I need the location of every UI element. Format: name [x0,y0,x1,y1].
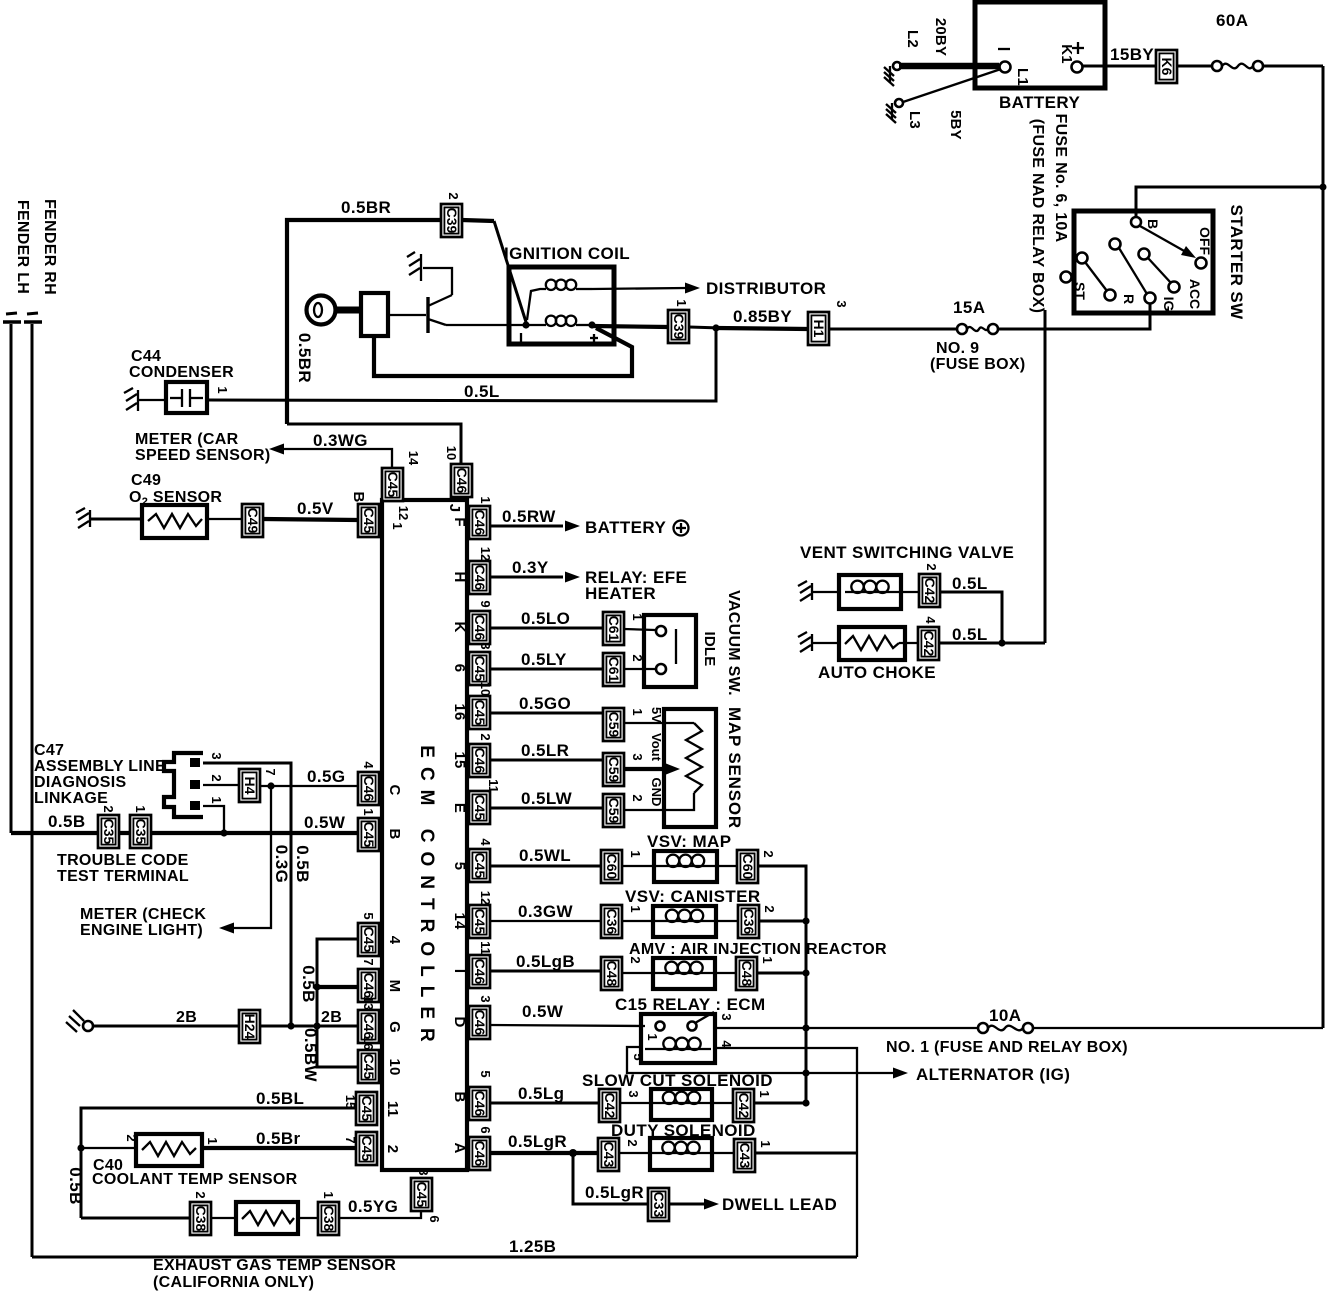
svg-text:3: 3 [478,995,493,1002]
label FENDER LH [14,200,31,294]
svg-text:MAP SENSOR: MAP SENSOR [725,707,744,829]
svg-text:2: 2 [193,1191,208,1198]
resistor C40 coolant temp sensor [81,1134,298,1188]
svg-text:1: 1 [760,956,775,963]
svg-text:1: 1 [478,496,493,503]
wire 10A to right bus [1033,1027,1323,1029]
connector C46 K right [451,600,493,644]
connector C45 3 bottom [411,1168,442,1222]
battery box [975,2,1105,112]
wire 0.5LgR dwell branch [573,1153,648,1204]
svg-text:AUTO CHOKE: AUTO CHOKE [818,663,936,682]
svg-text:DISTRIBUTOR: DISTRIBUTOR [706,279,826,298]
svg-text:1: 1 [757,1090,772,1097]
svg-text:BATTERY: BATTERY [999,93,1080,112]
svg-text:14: 14 [451,912,468,930]
svg-text:(FUSE NAD RELAY BOX): (FUSE NAD RELAY BOX) [1029,119,1046,313]
wire 0.5GO [490,694,603,713]
svg-text:1: 1 [209,796,224,803]
svg-text:VACUUM SW.: VACUUM SW. [725,590,742,696]
svg-text:LINKAGE: LINKAGE [34,790,108,807]
connector C39 pin 1 [668,299,689,343]
starter contact R [1077,253,1138,305]
fuse 10A [978,1006,1033,1033]
capacitor C44 condenser [129,348,234,413]
label FUSE No.6 10A [1029,114,1069,314]
svg-text:1: 1 [205,1137,220,1144]
svg-text:6: 6 [451,664,468,673]
ground vent valve [798,581,839,601]
svg-text:1: 1 [630,708,645,715]
svg-text:TROUBLE CODE: TROUBLE CODE [57,852,189,869]
svg-text:7: 7 [343,1136,358,1143]
svg-text:ENGINE LIGHT): ENGINE LIGHT) [80,922,203,939]
svg-text:G: G [386,1021,403,1033]
svg-text:NO. 1 (FUSE AND RELAY BOX): NO. 1 (FUSE AND RELAY BOX) [886,1039,1128,1056]
svg-text:2: 2 [209,774,224,781]
svg-text:16: 16 [451,703,468,720]
svg-text:1: 1 [361,808,376,815]
svg-text:Vout: Vout [649,733,664,762]
svg-text:7: 7 [263,768,278,775]
svg-text:J: J [446,504,463,513]
svg-text:12: 12 [478,547,493,561]
transistor ignitor [388,295,452,333]
connector C46 M left [358,958,403,1002]
svg-text:2: 2 [446,192,461,199]
wire canister to bus junction [759,917,810,924]
wire IG to fuse line [998,304,1150,329]
connector C45 2 left [343,1132,401,1165]
wire 5BY ground L3 to L1 [903,69,1001,140]
connector C45 16 right [451,682,493,729]
svg-text:15: 15 [451,751,468,768]
label meter car speed sensor [135,431,271,464]
svg-text:DIAGNOSIS: DIAGNOSIS [34,774,127,791]
svg-text:C45: C45 [359,1096,375,1122]
connector C61 pin 2 [603,653,645,686]
solenoid duty coil [619,1138,734,1170]
ground L3 [886,99,923,129]
connector C46 C left [358,761,403,805]
svg-text:L1: L1 [1014,68,1031,86]
wire relay coil 5 to alternator [627,1047,1070,1084]
svg-text:B: B [350,491,367,502]
wire fender RH down [31,324,34,1257]
connector C46 I right [451,941,493,988]
svg-text:3: 3 [626,1090,641,1097]
resistor auto choke [818,627,936,682]
label duty solenoid [611,1121,756,1140]
wire 0.5LgB [490,952,601,971]
wire C47 pin2 to H4 [203,784,239,786]
svg-text:60A: 60A [1216,11,1248,30]
svg-text:GND: GND [649,778,664,807]
battery terminal K1 (+) [1058,42,1084,73]
svg-text:C45: C45 [472,909,488,935]
svg-text:C45: C45 [361,822,377,848]
svg-text:0.3G: 0.3G [272,845,291,883]
connector C60 pin 2 [737,850,776,883]
connector C35 pin 1 [130,805,151,848]
svg-text:C42: C42 [921,631,937,657]
connector C42 pin 4 [918,616,939,660]
svg-text:1: 1 [390,522,405,529]
svg-text:H: H [451,571,468,582]
svg-text:METER (CHECK: METER (CHECK [80,906,206,923]
wire 0.5YG to ECM 3 [339,1197,421,1218]
svg-text:C15 RELAY : ECM: C15 RELAY : ECM [615,995,766,1014]
label meter check engine light [80,906,206,939]
svg-text:1: 1 [674,299,689,306]
svg-text:C45: C45 [472,656,488,682]
junction right bus to starter feed [1320,184,1327,191]
wire 0.3G to check engine meter [219,786,291,934]
wire 0.5B trouble code line [11,812,358,833]
svg-text:0.5LO: 0.5LO [521,609,570,628]
svg-text:C46: C46 [361,776,377,802]
svg-text:0.5L: 0.5L [952,625,988,644]
connector C60 pin 1 [601,850,643,883]
svg-text:C39: C39 [444,208,460,234]
svg-text:H4: H4 [242,777,258,795]
svg-text:0.5LY: 0.5LY [521,650,567,669]
svg-text:C35: C35 [133,819,149,845]
svg-text:COOLANT TEMP SENSOR: COOLANT TEMP SENSOR [92,1171,298,1188]
svg-text:2B: 2B [321,1009,342,1026]
connector H24 [239,1010,260,1043]
connector C46 H right [451,547,493,594]
vacuum switch idle box [624,590,742,696]
svg-text:FUSE No. 6, 10A: FUSE No. 6, 10A [1052,114,1069,243]
svg-text:C47: C47 [34,742,64,759]
wire C47 pin3 to 0.5B drop [203,763,312,1026]
wire C33 to dwell lead [669,1195,837,1214]
connector C49 [242,504,263,537]
svg-text:A: A [451,1142,468,1153]
svg-text:I: I [451,969,468,973]
connector C46 D right [451,995,493,1039]
svg-text:1: 1 [321,1191,336,1198]
wire spark plug shell to coil plus [374,328,632,376]
svg-text:9: 9 [478,600,493,607]
svg-text:C61: C61 [606,616,622,642]
connector C46 G left [358,996,403,1043]
connector C45 B2 left [358,808,403,851]
wire coil plus to C39-1 [592,326,668,327]
svg-text:(FUSE BOX): (FUSE BOX) [930,356,1025,373]
label VSV CANISTER [625,887,761,906]
svg-text:ST: ST [1072,282,1088,300]
svg-text:10: 10 [386,1058,403,1075]
svg-text:ACC: ACC [1187,279,1203,309]
svg-text:SPEED SENSOR): SPEED SENSOR) [135,447,271,464]
ground auto choke [798,632,839,652]
starter contact ACC [1139,249,1204,310]
svg-text:0.5RW: 0.5RW [502,507,556,526]
solenoid VSV canister coil [622,906,738,937]
svg-text:K6: K6 [1159,58,1175,76]
svg-text:10: 10 [444,446,459,460]
ignition coil primary winding [521,316,598,342]
wire 15A to H1 [830,328,957,331]
svg-text:0.5Br: 0.5Br [256,1129,301,1148]
wire 0.5L condenser to junction [207,328,716,401]
svg-text:13: 13 [361,996,376,1010]
svg-text:0.5B: 0.5B [293,845,312,883]
svg-text:5: 5 [478,1070,493,1077]
svg-text:C39: C39 [671,314,687,340]
svg-text:3: 3 [719,1013,734,1020]
wire fender LH down [10,324,13,833]
svg-text:C42: C42 [602,1093,618,1119]
svg-text:IDLE: IDLE [701,632,718,667]
svg-text:3: 3 [478,642,493,649]
connector C45 11 left [343,1092,401,1125]
wire exhaust branch [81,1217,190,1220]
svg-text:4: 4 [478,838,493,846]
svg-text:C45: C45 [359,1136,375,1162]
svg-text:5: 5 [631,1053,646,1060]
svg-text:0.3GW: 0.3GW [518,902,573,921]
wire 0.5BW ECM 10 [301,1026,358,1083]
svg-text:NO. 9: NO. 9 [936,340,979,357]
svg-text:0.85BY: 0.85BY [733,307,792,326]
svg-text:1: 1 [215,386,230,393]
svg-text:0.5L: 0.5L [952,574,988,593]
relay C15 coil [645,1038,711,1050]
svg-text:2: 2 [478,733,493,740]
svg-text:2: 2 [101,805,116,812]
svg-text:1: 1 [628,850,643,857]
wire 0.5RW to battery plus [490,507,689,537]
svg-text:12: 12 [478,891,493,905]
connector C59 pin 2 [603,794,645,827]
wire 0.3Y to EFE relay [490,558,687,603]
ground at transistor collector [407,252,452,295]
svg-text:ASSEMBLY LINE: ASSEMBLY LINE [34,758,166,775]
svg-text:11: 11 [478,941,493,955]
connector C46 F right [451,496,493,539]
connector C45 B left (O2) [350,491,411,537]
svg-text:12: 12 [396,506,411,520]
svg-text:15A: 15A [953,298,985,317]
svg-text:10A: 10A [989,1006,1021,1025]
ground fender RH [24,313,42,322]
svg-text:11: 11 [486,779,501,793]
connector C36 pin 1 [601,905,643,938]
svg-text:0.5LW: 0.5LW [521,789,573,808]
ground fender LH [3,313,21,322]
svg-text:D: D [451,1016,468,1027]
connector C46 pin 10 on ECM top [444,446,472,497]
svg-text:4: 4 [361,761,376,769]
svg-text:1.25B: 1.25B [509,1237,556,1256]
svg-text:0.5B: 0.5B [66,1167,85,1205]
svg-text:C43: C43 [737,1143,753,1169]
label slow cut solenoid [582,1071,773,1090]
svg-text:B: B [451,1091,468,1102]
connector C39 pin 2 [441,192,462,237]
svg-text:CONDENSER: CONDENSER [129,364,234,381]
svg-text:C45: C45 [472,795,488,821]
svg-text:1: 1 [133,805,148,812]
wire C47 pin1 to 0.5B [203,806,228,837]
svg-text:R: R [1121,294,1137,304]
svg-text:C59: C59 [606,798,622,824]
svg-text:7: 7 [361,958,376,965]
svg-text:0.5V: 0.5V [297,499,334,518]
starter contact OFF with blade [1140,226,1213,269]
svg-text:C45: C45 [361,927,377,953]
svg-text:AMV : AIR INJECTION REACTOR: AMV : AIR INJECTION REACTOR [629,941,887,958]
svg-text:0.5LR: 0.5LR [521,741,569,760]
svg-text:0.5BW: 0.5BW [301,1028,320,1083]
connector C45 E right [451,779,501,824]
connector C38 pin 1 [318,1191,339,1235]
wire duty to relay4 drop [755,1152,857,1155]
connector C45 4 left [358,912,403,956]
svg-text:C48: C48 [739,961,755,987]
svg-text:C36: C36 [604,909,620,935]
battery terminal L1 (-) [998,49,1031,86]
svg-text:0.5B: 0.5B [48,812,86,831]
ignition coil box [504,244,630,344]
connector C61 pin 1 [603,612,645,645]
svg-text:4: 4 [923,616,938,624]
wire 0.5L choke to fuse no6 drop [939,625,1045,647]
connector C38 pin 2 [190,1191,211,1235]
wire C39-2 to coil terminal [462,220,526,322]
connector K6 [1156,50,1177,83]
svg-text:C60: C60 [740,854,756,880]
svg-text:STARTER SW: STARTER SW [1227,204,1246,320]
svg-text:M: M [386,980,403,993]
svg-text:C38: C38 [321,1206,337,1232]
resistor exhaust gas temp sensor [153,1202,396,1291]
svg-text:15BY: 15BY [1110,45,1154,64]
svg-text:METER (CAR: METER (CAR [135,431,239,448]
connector C47 [164,752,224,817]
svg-text:C36: C36 [741,909,757,935]
wire fuse no.6 drop [1044,310,1047,643]
wire 20BY ground L2 to L1 [899,18,999,66]
svg-text:TEST TERMINAL: TEST TERMINAL [57,868,189,885]
svg-text:3: 3 [416,1168,431,1175]
wire 0.3GW [490,902,601,921]
svg-text:2: 2 [762,905,777,912]
connector C45 5 right [451,838,493,882]
right bus wire [1322,66,1325,1028]
svg-text:C46: C46 [454,468,470,494]
svg-text:0.5LgR: 0.5LgR [508,1132,567,1151]
svg-text:1: 1 [645,1033,660,1040]
starter switch box [1074,204,1246,320]
svg-text:C46: C46 [472,959,488,985]
wire 0.5LW [490,789,603,808]
svg-text:C45: C45 [472,700,488,726]
junction 0.5B at 2B [287,1022,320,1029]
svg-text:C59: C59 [606,712,622,738]
svg-text:0.5G: 0.5G [307,767,345,786]
svg-text:C44: C44 [131,348,161,365]
svg-text:1: 1 [758,1140,773,1147]
wire 0.5L vent to junction [940,574,1002,643]
svg-text:0.5GO: 0.5GO [519,694,571,713]
connector C46 B right [451,1070,493,1120]
solenoid vent valve coil [839,575,919,609]
wire 0.5LR [490,741,603,760]
MAP sensor internals [624,707,702,810]
connector C42 pin 3 [599,1089,641,1122]
wire coil to distributor [592,279,826,298]
spark plug [307,293,389,336]
label C49 O2 sensor [129,472,222,508]
svg-text:14: 14 [406,451,421,466]
ground 2B [66,1010,93,1032]
wire 0.5V to ECM B [263,499,358,520]
svg-text:C45: C45 [361,508,377,534]
svg-text:C46: C46 [361,973,377,999]
wire 0.5B ECM 4 and M [299,939,358,1026]
svg-text:B: B [1145,219,1161,229]
svg-text:3: 3 [209,752,224,759]
svg-text:0.5YG: 0.5YG [348,1197,398,1216]
label FENDER RH [41,199,58,295]
ECM controller box [382,500,467,1170]
label VSV MAP [647,832,731,851]
connector C43 pin 2 [598,1138,640,1171]
svg-text:3: 3 [834,300,849,307]
svg-text:1: 1 [628,905,643,912]
resistor O2 sensor [142,505,207,538]
fuse 60A [1212,11,1263,71]
wire starter B feed [1136,187,1323,217]
label trouble code test terminal [57,852,189,885]
wire relay coil 4 down [715,1048,857,1257]
svg-text:ALTERNATOR (IG): ALTERNATOR (IG) [916,1065,1070,1084]
svg-text:H24: H24 [242,1014,258,1040]
svg-text:C46: C46 [472,565,488,591]
wire 0.5BR top [287,198,441,424]
svg-text:0.5L: 0.5L [464,382,500,401]
svg-text:FENDER RH: FENDER RH [41,199,58,295]
wire 0.5BL coolant branch [66,1089,356,1218]
svg-text:2: 2 [924,563,939,570]
wire emitter to coil [446,324,524,326]
connector C46 15 right [451,733,493,777]
wire 15BY K1 to K6 [1082,45,1156,66]
svg-text:C42: C42 [736,1093,752,1119]
svg-text:2: 2 [761,850,776,857]
MAP sensor box [664,707,744,829]
svg-text:2B: 2B [176,1009,197,1026]
connector C42 pin 1 [733,1089,772,1122]
svg-text:VSV: MAP: VSV: MAP [647,832,731,851]
svg-text:IG: IG [1161,297,1177,312]
svg-text:20BY: 20BY [932,18,949,56]
svg-text:C61: C61 [606,657,622,683]
connector C45 6 right [451,642,493,685]
svg-text:0.5BR: 0.5BR [295,333,314,383]
svg-text:2: 2 [384,1145,401,1154]
svg-text:F: F [451,517,468,526]
starter contact IG [1110,239,1178,312]
svg-text:HEATER: HEATER [585,584,656,603]
svg-text:C45: C45 [414,1182,430,1208]
connector C42 pin 2 [919,563,940,607]
svg-text:VSV: CANISTER: VSV: CANISTER [625,887,761,906]
